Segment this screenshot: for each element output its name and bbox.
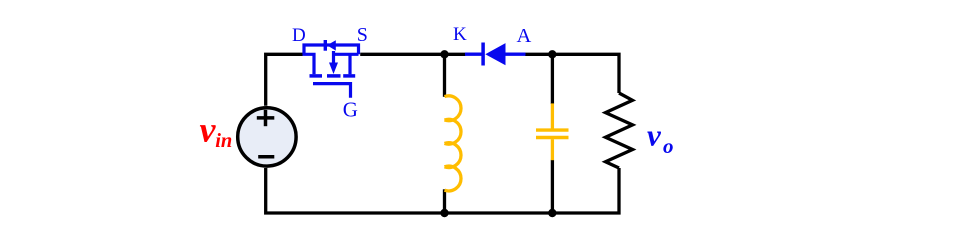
node top-left junction (inductor/top rail) xyxy=(440,50,448,58)
svg-text:G: G xyxy=(343,98,358,122)
node bottom junction (capacitor/bottom rail) xyxy=(548,209,556,217)
diode triangle xyxy=(485,43,505,65)
MOSFET middle contact bar xyxy=(327,74,341,78)
wire bottom rail xyxy=(266,168,619,213)
label v_in xyxy=(200,109,233,152)
capacitor orange top lead xyxy=(551,103,554,128)
MOSFET body-diode triangle xyxy=(327,40,336,50)
MOSFET substrate arrow xyxy=(332,51,335,65)
MOSFET body-diode bar xyxy=(324,40,327,51)
MOSFET switch body (blue) xyxy=(303,45,359,98)
wire capacitor bottom lead (black part) xyxy=(551,160,554,213)
MOSFET drain stub and left contact drop xyxy=(303,54,315,74)
wire inductor bottom lead xyxy=(443,189,446,213)
diode anode-side blue wire xyxy=(505,53,526,56)
svg-text:S: S xyxy=(357,24,368,46)
MOSFET right contact bar xyxy=(343,74,355,78)
voltage source minus sign xyxy=(258,155,274,159)
capacitor C bottom plate xyxy=(536,136,569,139)
capacitor C top plate xyxy=(536,128,569,131)
wire inductor top lead xyxy=(443,54,446,97)
svg-text:A: A xyxy=(517,25,532,47)
label v_o xyxy=(647,118,674,159)
node bottom junction (inductor/bottom rail) xyxy=(440,209,448,217)
voltage source plus sign xyxy=(257,110,275,126)
voltage source Vin circle xyxy=(238,108,296,166)
node top-right junction (capacitor/top rail) xyxy=(548,50,556,58)
wire capacitor top lead (black part) xyxy=(551,54,554,104)
wire top rail center segment (MOSFET to diode) xyxy=(360,53,465,56)
MOSFET gate plate and lead to G xyxy=(313,84,351,98)
MOSFET bridge source-drain path xyxy=(304,45,359,54)
wire top rail left segment xyxy=(266,54,303,105)
MOSFET source stub and right contact drop xyxy=(334,53,359,56)
svg-text:o: o xyxy=(663,134,674,158)
diode cathode bar xyxy=(481,43,485,66)
svg-text:in: in xyxy=(215,130,232,152)
MOSFET left contact bar xyxy=(310,74,323,78)
svg-text:K: K xyxy=(453,24,467,45)
svg-text:v: v xyxy=(200,109,217,149)
svg-text:D: D xyxy=(292,25,306,46)
svg-text:v: v xyxy=(647,118,662,153)
resistor R load xyxy=(606,93,633,168)
inductor L xyxy=(445,96,462,191)
capacitor orange bottom lead xyxy=(551,139,554,160)
wire top rail right segment (diode to resistor corner) xyxy=(525,54,619,93)
diode cathode-side blue wire xyxy=(465,53,483,56)
